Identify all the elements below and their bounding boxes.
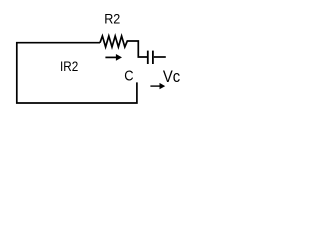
svg-text:IR2: IR2	[60, 58, 78, 74]
svg-text:C: C	[124, 68, 133, 85]
svg-text:R2: R2	[104, 11, 120, 27]
svg-text:Vc: Vc	[163, 67, 181, 86]
